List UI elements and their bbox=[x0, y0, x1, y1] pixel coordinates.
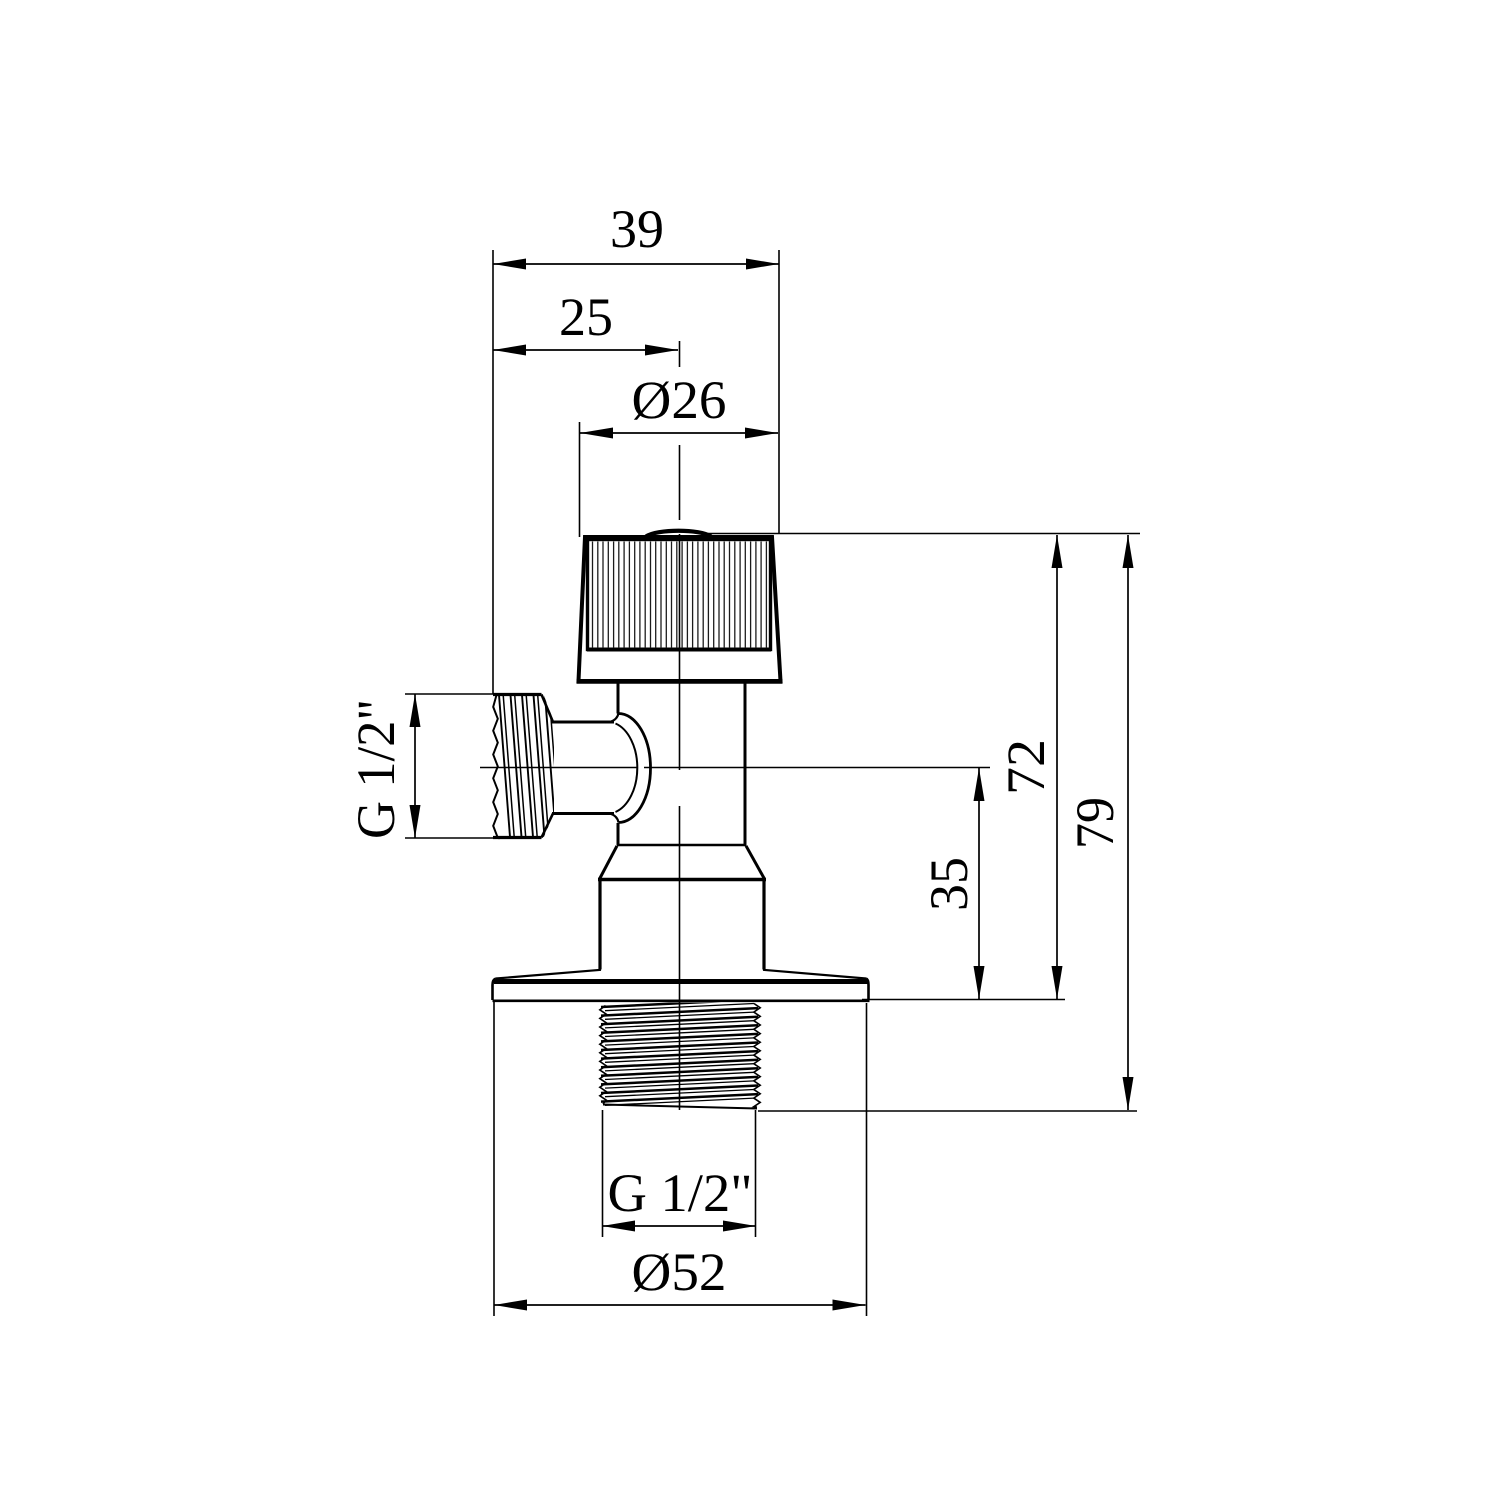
body boss inner arc bbox=[616, 724, 638, 813]
side thread bottom edge bbox=[493, 836, 542, 839]
arrowhead 79 bottom bbox=[1123, 1077, 1134, 1110]
svg-text:72: 72 bbox=[996, 739, 1056, 795]
arrowhead Ø26 left bbox=[580, 428, 613, 439]
extension line flange bottom level for 35/72 bbox=[862, 999, 1065, 1001]
body shoulder line at neck bottom bbox=[617, 844, 746, 847]
extension line thread bottom level for 79 bbox=[758, 1110, 1137, 1112]
bottom thread closing bottom edge bbox=[603, 1105, 757, 1109]
extension line right of Ø52 bbox=[866, 1003, 868, 1316]
side thread left zigzag crest edge bbox=[493, 695, 498, 838]
extension line left of bottom G 1/2" bbox=[602, 1110, 604, 1237]
extension line left of 39/25 (x=493) bbox=[492, 250, 494, 694]
svg-text:39: 39 bbox=[610, 199, 664, 259]
dimension line Ø26 bbox=[580, 432, 778, 434]
knurled band rectangle bbox=[588, 540, 771, 650]
arrowhead 72 top bbox=[1052, 535, 1063, 568]
svg-text:G 1/2": G 1/2" bbox=[608, 1163, 753, 1223]
body neck right edge bbox=[744, 682, 747, 846]
arrowhead 35 top bbox=[974, 768, 985, 801]
vertical centerline segment above knob bbox=[679, 445, 681, 520]
handle knob bottom edge (thick) bbox=[577, 679, 783, 684]
arrowhead bottom G1/2 right bbox=[723, 1221, 756, 1232]
dimension line 35 bbox=[978, 768, 980, 999]
dimension line G 1/2" side bbox=[414, 694, 416, 838]
flange bottom edge bbox=[493, 999, 870, 1002]
outlet pipe bottom edge bbox=[552, 812, 614, 815]
side thread top edge bbox=[493, 693, 542, 696]
extension line knob top level for 72/79 bbox=[706, 533, 1140, 535]
arrowhead Ø52 left bbox=[494, 1300, 527, 1311]
flange left rim edge bbox=[493, 979, 497, 1001]
lower body left edge bbox=[598, 879, 601, 970]
arrowhead 25 right bbox=[645, 345, 678, 356]
bottom thread right zigzag edge bbox=[754, 1004, 760, 1108]
side thread helix lines bbox=[499, 695, 560, 837]
extension line top of side thread G 1/2" bbox=[405, 693, 493, 695]
svg-text:79: 79 bbox=[1065, 797, 1125, 849]
arrowhead Ø52 right bbox=[833, 1300, 866, 1311]
dimension line 39 bbox=[493, 263, 779, 265]
horizontal centerline of side outlet (right part) bbox=[644, 767, 990, 769]
outlet pipe fillet to body bottom bbox=[610, 814, 619, 823]
side thread end chamfer top bbox=[542, 695, 554, 723]
dimension line 79 bbox=[1127, 535, 1129, 1110]
arrowhead 35 bottom bbox=[974, 966, 985, 999]
arrowhead 72 bottom bbox=[1052, 966, 1063, 999]
dimension line Ø52 bbox=[494, 1304, 866, 1306]
handle knob outer trapezoid bbox=[579, 537, 781, 681]
extension line left of Ø52 bbox=[493, 1002, 495, 1316]
svg-text:35: 35 bbox=[919, 857, 979, 911]
svg-text:Ø26: Ø26 bbox=[632, 370, 727, 430]
flange right rim edge bbox=[866, 979, 869, 1001]
arrowhead bottom G1/2 left bbox=[602, 1221, 635, 1232]
svg-text:Ø52: Ø52 bbox=[632, 1242, 727, 1302]
flange rim thick top band bbox=[494, 979, 868, 984]
bottom thread left zigzag edge bbox=[600, 1006, 606, 1105]
arrowhead G1/2 side top bbox=[410, 694, 421, 727]
vertical centerline segment through flange and thread bbox=[679, 806, 681, 1110]
extension tick at center for 25 bbox=[679, 341, 681, 367]
flange top cone right slant bbox=[763, 970, 866, 979]
body neck left edge upper segment bbox=[617, 682, 620, 714]
arrowhead 79 top bbox=[1123, 535, 1134, 568]
arrowhead G1/2 side bottom bbox=[410, 805, 421, 838]
body taper right bbox=[746, 846, 765, 879]
dimension line 25 bbox=[493, 349, 678, 351]
knurl band bottom thick edge bbox=[587, 648, 771, 652]
side thread end chamfer bottom bbox=[542, 814, 554, 838]
svg-text:G 1/2": G 1/2" bbox=[346, 699, 406, 839]
body shoulder line lower bbox=[598, 878, 766, 881]
arrowhead 39 left bbox=[493, 259, 526, 270]
body neck left edge lower segment bbox=[617, 823, 620, 845]
dimension line 72 bbox=[1056, 535, 1058, 999]
body taper left bbox=[600, 846, 618, 879]
svg-text:25: 25 bbox=[559, 287, 613, 347]
handle knob top cap bump bbox=[646, 531, 711, 537]
arrowhead 25 left bbox=[493, 345, 526, 356]
vertical centerline segment through body bbox=[679, 534, 681, 770]
bottom thread helix lines bbox=[601, 1000, 758, 1106]
lower body right edge bbox=[762, 879, 765, 970]
extension line bottom of side thread G 1/2" bbox=[405, 837, 493, 839]
outlet pipe top edge bbox=[552, 721, 614, 724]
flange top cone left slant bbox=[496, 970, 601, 979]
arrowhead Ø26 right bbox=[745, 428, 778, 439]
knurl hatch lines bbox=[593, 542, 767, 649]
extension line left of Ø26 (x=579.5) bbox=[579, 422, 581, 537]
horizontal centerline of side outlet (left part) bbox=[480, 767, 637, 769]
dimension line bottom G 1/2" bbox=[602, 1225, 756, 1227]
outlet pipe fillet to body top bbox=[610, 713, 619, 722]
extension line right of bottom G 1/2" bbox=[755, 1110, 757, 1237]
arrowhead 39 right bbox=[746, 259, 779, 270]
extension line right of 39 / Ø26 (x=779) bbox=[778, 250, 780, 533]
body boss outer arc bbox=[619, 714, 651, 823]
